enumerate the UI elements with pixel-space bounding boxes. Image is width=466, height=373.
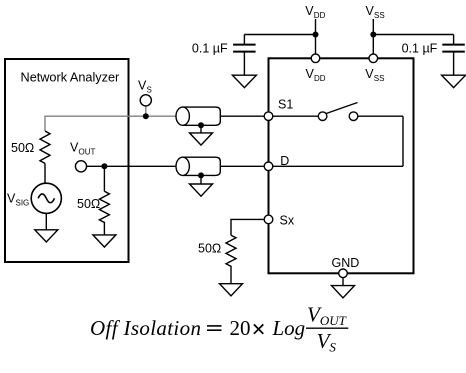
- wire back to D pin: [273, 165, 403, 167]
- resistor R3 50ohm: [226, 235, 236, 266]
- wire R2 to ground: [103, 222, 105, 235]
- svg-text:D: D: [280, 154, 289, 168]
- pin S1: [264, 112, 273, 121]
- label pin VDD: [306, 67, 326, 83]
- DUT box U1: [269, 58, 414, 273]
- wire VDD vertical: [315, 19, 317, 54]
- wire Sx to R3: [231, 219, 264, 235]
- wire switch to right: [358, 115, 403, 117]
- wire coax1 to S1 pin: [220, 115, 264, 117]
- wire VS net (grey) from R1 to coax1: [45, 116, 176, 131]
- label VOUT: [70, 141, 96, 157]
- wire VS stub (grey): [145, 106, 147, 116]
- label pin VSS: [365, 67, 384, 83]
- wire right vertical: [402, 116, 404, 166]
- svg-text:GND: GND: [332, 256, 360, 270]
- wire VDD to C1: [244, 34, 315, 36]
- wire S1 to switch: [273, 115, 319, 117]
- capacitor C2 0.1uF: [442, 35, 465, 76]
- svg-text:Off Isolation: Off Isolation: [90, 316, 201, 340]
- junction VOUT: [101, 163, 107, 169]
- ground below coax2: [190, 184, 213, 196]
- svg-text:Log: Log: [272, 316, 306, 340]
- wire VSS to C2: [373, 34, 453, 36]
- svg-text:0.1 µF: 0.1 µF: [192, 41, 228, 55]
- svg-text:SS: SS: [374, 11, 385, 20]
- ground below C2: [442, 75, 466, 87]
- label VSIG: [7, 191, 29, 207]
- wire coax2 shield stub: [200, 175, 202, 184]
- resistor R2 50ohm: [99, 191, 109, 222]
- ground below C1: [232, 75, 256, 87]
- port VS terminal: [140, 95, 151, 106]
- wire VOUT junction to R2: [103, 166, 105, 191]
- junction coax1 shield: [198, 122, 204, 128]
- pin GND: [339, 269, 348, 278]
- svg-text:50Ω: 50Ω: [77, 197, 100, 211]
- resistor R1 50ohm: [40, 131, 50, 163]
- svg-text:Sx: Sx: [280, 214, 295, 228]
- capacitor C1 0.1uF: [233, 35, 256, 76]
- ground below VSIG: [35, 230, 58, 242]
- equation Off Isolation: [90, 302, 348, 354]
- svg-text:S1: S1: [278, 98, 293, 112]
- svg-text:50Ω: 50Ω: [11, 141, 34, 155]
- node VDD top label: [305, 4, 325, 20]
- svg-text:DD: DD: [314, 74, 326, 83]
- junction VSS: [370, 32, 376, 38]
- wire VSS vertical: [372, 19, 374, 54]
- pin VSS: [369, 54, 378, 63]
- ground below coax1: [190, 133, 213, 145]
- ground below R3: [220, 284, 243, 296]
- wire coax1 shield stub: [200, 125, 202, 133]
- junction VS: [143, 113, 149, 119]
- wire source to ground: [45, 213, 47, 229]
- node VSS top label: [366, 4, 385, 20]
- junction coax2 shield: [198, 172, 204, 178]
- coax cable 1 body: [176, 107, 220, 125]
- ground below GND pin: [332, 286, 355, 298]
- ground below R2: [93, 235, 116, 247]
- source VSIG: [31, 183, 61, 213]
- coax cable 2 body: [176, 157, 220, 175]
- wire VOUT to coax2: [87, 165, 177, 167]
- wire coax2 to D pin: [220, 165, 264, 167]
- pin VDD: [311, 54, 320, 63]
- svg-text:0.1 µF: 0.1 µF: [402, 41, 438, 55]
- label VS: [138, 79, 152, 95]
- svg-text:20: 20: [230, 316, 251, 340]
- port VOUT terminal: [75, 161, 86, 172]
- svg-text:SS: SS: [374, 74, 385, 83]
- pin D: [264, 162, 273, 171]
- svg-text:OUT: OUT: [79, 148, 96, 157]
- wire R1 to source: [44, 163, 46, 183]
- svg-text:SIG: SIG: [16, 198, 30, 207]
- svg-text:50Ω: 50Ω: [198, 242, 221, 256]
- svg-text:Network Analyzer: Network Analyzer: [21, 70, 120, 84]
- pin Sx: [264, 215, 273, 224]
- junction VDD: [313, 32, 319, 38]
- svg-text:S: S: [147, 86, 152, 95]
- Network Analyzer box: [5, 59, 129, 262]
- svg-text:DD: DD: [314, 11, 326, 20]
- switch SW1: [318, 103, 358, 121]
- wire R3 to ground: [230, 266, 232, 284]
- wire GND stub: [342, 278, 344, 286]
